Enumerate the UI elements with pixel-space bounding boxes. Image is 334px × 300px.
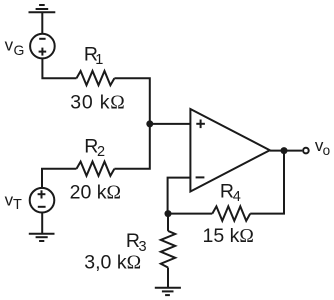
output terminal (open circle) xyxy=(303,148,309,154)
wire (node B to R4) xyxy=(168,213,213,215)
output node (junction dot) xyxy=(281,147,288,154)
wire (top ground to vG) xyxy=(41,12,43,33)
svg-text:R3: R3 xyxy=(126,230,147,255)
resistor R3 xyxy=(161,231,175,268)
voltage source vT xyxy=(30,188,55,213)
resistor R1 xyxy=(77,71,115,85)
svg-text:R1: R1 xyxy=(84,44,103,68)
svg-text:vT: vT xyxy=(5,191,22,214)
resistor R2 xyxy=(77,162,115,176)
op-amp U1 xyxy=(190,109,269,192)
svg-text:20 kΩ: 20 kΩ xyxy=(70,181,121,203)
wire (node A to op-amp + input) xyxy=(150,123,191,125)
wire (R4 to output node) xyxy=(250,151,284,214)
wire (vT to R2) xyxy=(42,169,77,189)
voltage source vG xyxy=(30,34,55,59)
svg-text:vo: vo xyxy=(315,136,330,158)
wire (op-amp output to terminal) xyxy=(270,150,302,152)
wire (R2 to node A) xyxy=(114,124,149,169)
svg-text:30 kΩ: 30 kΩ xyxy=(70,92,125,114)
svg-text:15 kΩ: 15 kΩ xyxy=(203,225,254,247)
svg-text:R4: R4 xyxy=(220,180,241,205)
ground (top, above vG) xyxy=(29,5,56,12)
wire (R1 to node A) xyxy=(114,78,149,124)
node B (junction dot) xyxy=(165,210,172,217)
wire (R3 to bottom ground) xyxy=(167,268,169,288)
wire (op-amp - input to node B) xyxy=(168,178,191,214)
wire (node B to R3) xyxy=(167,214,169,231)
wire (vG to R1) xyxy=(42,58,76,79)
svg-text:3,0 kΩ: 3,0 kΩ xyxy=(84,252,141,274)
ground (below vT) xyxy=(29,234,55,241)
svg-text:R2: R2 xyxy=(84,135,105,160)
node A (junction dot) xyxy=(146,120,153,127)
wire (vT to bottom-left ground) xyxy=(41,212,43,234)
resistor R4 xyxy=(212,206,250,220)
svg-text:vG: vG xyxy=(5,36,25,58)
ground (below R3) xyxy=(155,288,181,295)
